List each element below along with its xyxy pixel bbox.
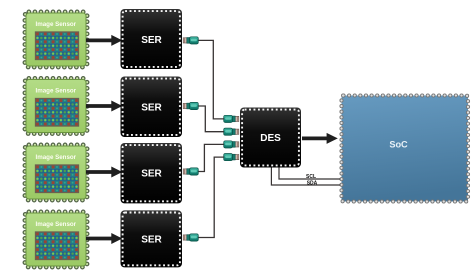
arrow sensor1 to SER1 <box>86 35 122 46</box>
arrow sensor3 to SER3 <box>86 167 122 178</box>
wire SER1 to DES input1 <box>198 40 224 119</box>
image sensor 1 <box>25 12 87 67</box>
DES chip <box>240 108 301 168</box>
connector SER1 output <box>183 37 198 44</box>
svg-text:SER: SER <box>141 102 162 113</box>
arrow sensor4 to SER4 <box>86 233 122 244</box>
svg-text:SER: SER <box>141 35 162 46</box>
connector SER4 output <box>183 234 198 241</box>
SoC chip <box>342 96 469 202</box>
connector DES input 3 <box>224 141 239 148</box>
image sensor 3 <box>25 145 87 200</box>
arrow sensor2 to SER2 <box>86 101 122 112</box>
svg-text:SoC: SoC <box>389 139 408 149</box>
connector DES input 1 <box>224 115 239 122</box>
connector DES input 2 <box>224 128 239 135</box>
connector SER2 output <box>183 102 198 109</box>
SER chip 4 <box>121 210 183 267</box>
image sensor 2 <box>25 78 87 133</box>
arrow DES to SoC <box>302 133 338 144</box>
svg-text:SCL: SCL <box>306 174 316 180</box>
svg-text:SDA: SDA <box>307 180 318 186</box>
connector SER3 output <box>183 168 198 175</box>
wire SDA DES to SoC <box>271 168 340 186</box>
connector DES input 4 <box>224 154 239 161</box>
svg-text:SER: SER <box>141 234 162 245</box>
wire SER3 to DES input3 <box>198 144 224 171</box>
wire SCL DES to SoC <box>279 168 341 180</box>
SER chip 2 <box>121 77 183 138</box>
wire SER2 to DES input2 <box>198 106 224 132</box>
SER chip 3 <box>121 143 183 203</box>
svg-text:DES: DES <box>260 133 281 144</box>
wire SER4 to DES input4 <box>198 157 224 237</box>
SER chip 1 <box>121 9 183 69</box>
svg-text:SER: SER <box>141 169 162 180</box>
image sensor 4 <box>25 212 87 267</box>
